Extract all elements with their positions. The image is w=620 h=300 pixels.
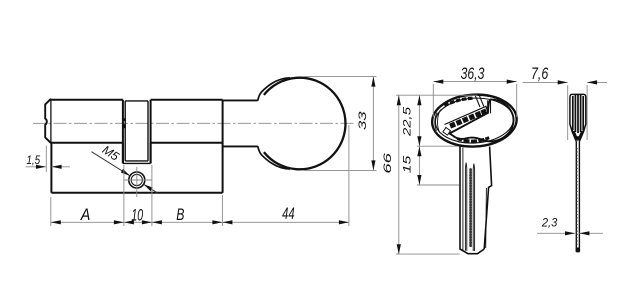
svg-text:22,5: 22,5 (401, 106, 413, 138)
head wedge shading (572, 128, 585, 140)
cylinder face (front plug face with chamfers) (45, 99, 51, 143)
coupling pin marks (123, 118, 126, 121)
ext line at knob right (348, 125, 350, 226)
M5 screw hole inner (131, 174, 142, 185)
body (lower euro profile part) (51, 143, 222, 193)
M5 leader arrow upper (121, 169, 130, 176)
svg-text:7,6: 7,6 (531, 65, 549, 83)
band knurl blobs (449, 109, 487, 129)
knob neck (223, 100, 258, 146)
svg-text:33: 33 (357, 110, 369, 130)
band end cap square (443, 128, 451, 136)
bottom dimension chain A 10 B 44 (51, 125, 349, 226)
left grip ridges (435, 110, 441, 133)
dimension 22,5 (bow height) (417, 95, 459, 185)
blade inner line left (462, 148, 464, 251)
dimension 7,6 (head thickness) (523, 82, 608, 140)
dimension 1,5 (26, 146, 71, 173)
centerline cylinder axis (33, 122, 356, 124)
svg-text:2,3: 2,3 (541, 216, 558, 230)
M5 screw hole outer (129, 172, 145, 188)
arrows bottom chain (51, 220, 349, 224)
knob flare bottom (258, 146, 290, 169)
dimension 66 (key length) (396, 95, 477, 254)
M5 leader line lower (144, 184, 159, 193)
bow inner ring (434, 96, 514, 145)
M5 leader arrow lower (144, 184, 153, 191)
svg-text:36,3: 36,3 (461, 65, 485, 83)
head grip ridges (573, 95, 583, 133)
grip band upper edge (445, 106, 489, 124)
svg-text:15: 15 (401, 155, 413, 174)
barrel right half (151, 100, 223, 164)
face joint line (50, 99, 52, 143)
ext line at A start (50, 197, 52, 226)
clip edge lines top (475, 95, 484, 107)
body right edge / barrel end (222, 100, 224, 193)
ext line at 10 left (123, 165, 125, 226)
svg-text:B: B (176, 206, 184, 224)
svg-text:1,5: 1,5 (26, 153, 40, 167)
band end vertical pair (488, 100, 491, 114)
bow outer (431, 93, 518, 149)
key front view bow (431, 93, 518, 149)
knob flare top (258, 78, 290, 101)
barrel left half (51, 100, 123, 164)
M5 leader line upper (92, 152, 131, 176)
cam (thumbturn coupling disc in slot) (125, 101, 148, 161)
M5 hole crosshair (124, 167, 152, 197)
ext line at body end (221, 195, 223, 226)
blade groove right (473, 164, 474, 252)
blade bitting bead chain (469, 170, 472, 248)
svg-text:44: 44 (282, 205, 295, 223)
svg-text:66: 66 (382, 152, 394, 174)
dimension 36,3 (bow width) (433, 82, 516, 117)
dimension 2,3 (blade thickness) (537, 232, 603, 234)
svg-text:A: A (80, 206, 90, 224)
ext line at 10 right (151, 165, 153, 226)
pad interior marks (457, 136, 490, 143)
dimension line (51, 221, 349, 223)
bow hole (kidney) (450, 100, 514, 142)
svg-text:10: 10 (131, 206, 143, 224)
key side view head (570, 94, 586, 141)
key blade front (460, 147, 492, 254)
slot bottom edge (123, 162, 151, 164)
key blade side (576, 141, 579, 251)
blade tip mark (576, 248, 580, 252)
blade inner line right (485, 188, 488, 248)
top-left rim knurl marks (444, 97, 473, 107)
blade groove left (465, 163, 466, 251)
knob circle arc (left gap hidden by neck) (264, 78, 346, 170)
side blade serration ticks (576, 148, 578, 247)
dimension 33 (knob diameter) (304, 77, 377, 171)
